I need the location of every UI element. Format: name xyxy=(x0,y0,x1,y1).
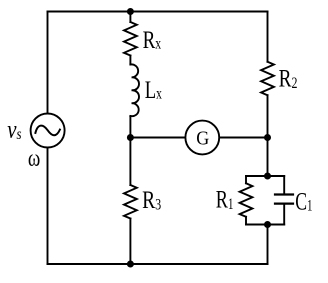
resistor R1 xyxy=(240,183,253,217)
resistor R3 xyxy=(124,185,137,219)
svg-text:Rx: Rx xyxy=(143,27,162,54)
galvanometer G circle xyxy=(185,121,219,155)
node block top xyxy=(264,173,271,180)
sine wave in source xyxy=(35,126,60,136)
wire right lower xyxy=(267,225,269,265)
capacitor C1 top plate xyxy=(275,193,293,195)
wire left upper xyxy=(47,12,49,113)
node bottom xyxy=(127,261,134,268)
parallel block top rail xyxy=(246,175,284,177)
svg-text:G: G xyxy=(196,127,209,149)
wire bottom xyxy=(48,263,268,265)
capacitor C1 bottom plate xyxy=(275,203,293,205)
node bridge right xyxy=(264,134,271,141)
wire C1 top lead xyxy=(283,176,285,194)
svg-text:vs: vs xyxy=(7,116,21,143)
svg-text:Lx: Lx xyxy=(145,77,162,104)
svg-text:C1: C1 xyxy=(295,188,312,215)
svg-text:R1: R1 xyxy=(216,187,234,214)
node bridge left xyxy=(127,134,134,141)
wire R3 to bottom xyxy=(129,219,131,265)
svg-text:ω: ω xyxy=(28,146,40,172)
svg-text:R3: R3 xyxy=(142,187,161,214)
wire Lx to node xyxy=(129,116,131,185)
wire R1 top lead xyxy=(245,176,247,183)
resistor Rx xyxy=(124,22,137,56)
wire right upper xyxy=(267,12,269,62)
node top xyxy=(127,8,134,15)
wire top xyxy=(48,11,268,13)
wire middle top xyxy=(129,12,131,23)
node block bottom xyxy=(264,221,271,228)
wire bridge left xyxy=(130,137,184,139)
wire right middle xyxy=(267,95,269,176)
parallel block bottom rail xyxy=(246,224,284,226)
wire R1 bottom lead xyxy=(245,217,247,225)
source vs circle xyxy=(31,114,65,148)
wire bridge right xyxy=(220,137,267,139)
wire left lower xyxy=(47,148,49,264)
resistor R2 xyxy=(261,62,274,95)
inductor Lx xyxy=(130,64,139,116)
wire Rx to Lx xyxy=(129,56,131,65)
svg-text:R2: R2 xyxy=(279,66,298,93)
wire C1 bottom lead xyxy=(283,204,285,225)
